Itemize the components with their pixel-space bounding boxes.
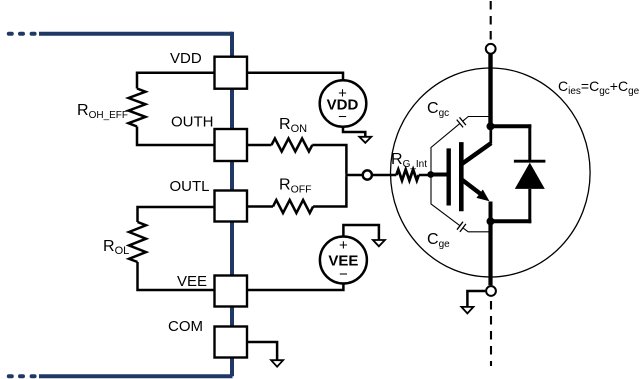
wire: blue supply rail top horizontal (dashed lead-in)	[9, 32, 232, 36]
capacitor C_ge plates	[457, 222, 466, 232]
wire: R_OH_EFF bottom to OUTH pin left	[137, 127, 215, 146]
wire: emitter vertical down to terminal	[488, 221, 492, 285]
pin box VDD	[215, 57, 248, 89]
wire: blue rail vertical	[230, 32, 234, 377]
svg-text:VEE: VEE	[177, 273, 207, 290]
ground (emitter)	[461, 307, 473, 314]
ground (VEE source)	[373, 240, 385, 246]
junction: gate node dot	[427, 171, 434, 178]
resistor R_OL	[129, 222, 146, 262]
wire: R_G_Int to gate node	[419, 174, 431, 177]
capacitance C_gc thin wire (collector side)	[463, 117, 489, 121]
junction: collector node dot	[487, 122, 495, 130]
wire: emitter corner down to emitter node	[489, 202, 493, 222]
wire: OUTL pin left to R_OL top	[138, 207, 215, 222]
diode triangle (anode, pointing up)	[515, 163, 545, 189]
ground (VDD source)	[359, 137, 371, 143]
wire: R_OL bottom to VEE pin left	[138, 262, 215, 290]
capacitance C_gc thin wire (gate side)	[431, 124, 460, 174]
svg-text:−: −	[339, 266, 348, 283]
wire: blue rail bottom horizontal (dashed lead-in)	[9, 374, 233, 378]
pin box OUTL	[215, 191, 248, 222]
wire: collector dashed line up	[490, 1, 492, 42]
junction: emitter node dot	[487, 217, 495, 225]
diode bottom lead	[528, 189, 531, 223]
node: emitter terminal (open circle)	[486, 286, 496, 296]
svg-text:+: +	[339, 237, 348, 254]
wire: VEE source bottom to VEE pin	[247, 284, 343, 291]
voltage source VDD	[320, 80, 367, 127]
wire: emitter terminal to ground	[467, 291, 485, 307]
resistor R_OFF	[273, 200, 313, 213]
transistor IGBT body bar	[459, 142, 464, 211]
pin box COM	[215, 327, 248, 358]
wire: VEE source top to ground	[343, 225, 379, 240]
transistor IGBT collector stub (thin)	[489, 126, 492, 144]
capacitance C_ge thin wire (gate side)	[431, 175, 460, 225]
wire: VDD pin left to R_OH_EFF top	[137, 73, 215, 89]
pin box VEE	[215, 276, 248, 307]
svg-text:OUTH: OUTH	[171, 114, 214, 131]
transistor IGBT gate bar	[447, 148, 451, 205]
wire: R_ON to node corner	[312, 145, 346, 174]
resistor R_ON	[272, 139, 313, 152]
wire: R_OFF to node corner	[313, 176, 346, 206]
wire: VDD pin right to VDD source top	[247, 73, 343, 81]
wire: collector node to diode top	[491, 124, 532, 128]
wire: COM pin right to ground	[247, 342, 277, 360]
resistor R_G_Int	[396, 170, 418, 181]
wire: emitter dashed line down	[490, 301, 492, 366]
transistor IGBT emitter diagonal with arrow	[462, 180, 481, 194]
diode top lead	[528, 124, 531, 160]
wire: VDD source bottom to ground	[343, 127, 365, 137]
wire: OUTL pin right to R_OFF	[247, 205, 273, 208]
svg-text:−: −	[338, 108, 347, 125]
transistor IGBT collector diagonal	[461, 143, 491, 164]
wire: terminal to R_G_Int	[373, 174, 396, 177]
wire: node corner to output terminal	[345, 174, 361, 177]
wire: OUTH pin right to R_ON	[247, 144, 272, 147]
pin box OUTH	[215, 129, 248, 161]
capacitance C_ge thin wire (emitter side)	[463, 228, 489, 232]
svg-text:OUTL: OUTL	[170, 178, 210, 195]
wire: diode bottom to emitter node	[491, 219, 532, 223]
node: collector terminal (open circle)	[486, 44, 496, 54]
svg-text:VDD: VDD	[170, 50, 202, 67]
wire: collector vertical (terminal to collector node)	[488, 54, 492, 128]
voltage source VEE	[320, 237, 367, 284]
diode cathode bar	[514, 160, 546, 163]
ground (COM)	[271, 360, 283, 367]
capacitor C_gc plates	[457, 117, 466, 127]
wire: gate node to IGBT gate bar (thick)	[431, 173, 448, 177]
device outline circle (IGBT module)	[391, 68, 591, 277]
node: gate output terminal (open circle)	[363, 170, 372, 179]
transistor IGBT emitter arrowhead	[476, 190, 489, 202]
resistor R_OH_EFF	[129, 89, 146, 127]
svg-text:COM: COM	[168, 318, 203, 335]
